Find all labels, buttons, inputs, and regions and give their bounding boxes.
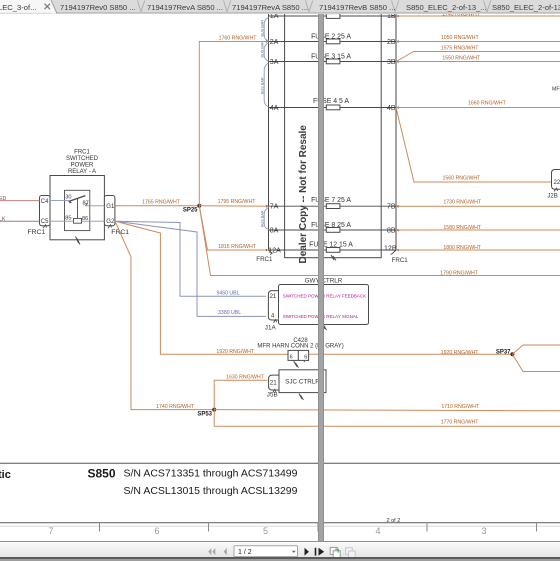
toolbar next-page button [305,548,309,556]
svg-text:3A: 3A [270,59,279,66]
connector C428 housing [288,350,309,360]
svg-text:1575 RNG/WHT: 1575 RNG/WHT [441,45,480,51]
svg-text:6: 6 [154,526,159,536]
svg-text:7A: 7A [270,204,279,211]
pin tick 2B [396,40,399,43]
wire 1550 RNG/WHT 3B to right edge [396,61,560,63]
wire SP37 branch upper [512,345,560,354]
ruler zone numbers [48,526,486,536]
wire fuse row 8 [269,229,397,231]
wire RED into C4 [0,200,40,202]
wire 1790 RNG/WHT SP25 to right edge [199,206,560,276]
svg-text:MFR H: MFR H [552,87,560,93]
svg-text:1710 RNG/WHT: 1710 RNG/WHT [441,404,480,410]
svg-text:FRC1: FRC1 [256,256,273,263]
splice SP25 [197,204,201,208]
fuse F3 15A [326,59,340,64]
svg-text:J2B: J2B [547,193,557,199]
ruler ticks [100,523,537,532]
relay K1 inner box [65,190,90,230]
bus bar bracket 7A-8A [264,208,268,230]
tab S850_ELEC_2-of-13 [484,1,491,12]
svg-text:S/N ACS713351 through ACS71349: S/N ACS713351 through ACS713499 [124,468,298,480]
svg-text:LEC_3-of...: LEC_3-of... [0,3,36,12]
relay contact blade [69,196,86,202]
fuse block bottom squiggle [331,255,336,261]
wire fuse row 4 [269,107,397,109]
svg-text:1790 RNG/WHT: 1790 RNG/WHT [440,270,479,276]
C428 bottom ticks [294,360,304,362]
wire 1800 RNG/WHT 12B to right edge [396,249,560,251]
svg-text:S850_ELEC_2-of-13_...: S850_ELEC_2-of-13_... [492,3,560,12]
svg-text:8B: 8B [387,227,396,234]
svg-text:7194197RevA S850 ...: 7194197RevA S850 ... [232,3,308,12]
bus right end mark [391,250,397,255]
ruler faint line [0,525,560,527]
svg-text:7194197RevB S850 ...: 7194197RevB S850 ... [319,3,395,12]
svg-text:30: 30 [65,194,71,200]
wire BLK into C5 [0,220,40,222]
relay armature link [77,199,79,219]
pin tick 2A [266,40,269,43]
wire 1740 RNG/WHT G2 to SP53 [115,221,214,409]
wire 3380 UBL G2 to J1A pin 4 [115,221,266,316]
svg-text:SP53: SP53 [197,411,212,417]
ruler border line [0,522,560,524]
svg-text:1770 RNG/WHT: 1770 RNG/WHT [441,419,480,425]
pin tick 12B [396,249,399,252]
svg-text:BUS BAR: BUS BAR [261,210,265,227]
connector G1G2 body [104,196,115,226]
pin tick 3B [396,60,399,63]
svg-text:J1A: J1A [265,324,277,331]
svg-text:3380 UBL: 3380 UBL [218,310,241,316]
svg-text:1560 RNG/WHT: 1560 RNG/WHT [443,175,482,181]
svg-text:S/N ACSL13015 through ACSL1329: S/N ACSL13015 through ACSL13299 [124,485,298,497]
tab 7194197RevB [392,1,399,12]
svg-text:8A: 8A [270,227,279,234]
svg-text:BUS BAR: BUS BAR [261,77,265,94]
svg-text:ED: ED [0,196,6,202]
svg-text:LK: LK [0,217,6,223]
svg-text:1815 RNG/WHT: 1815 RNG/WHT [218,244,257,250]
toolbar snapshot icon disabled [346,548,353,555]
wire 1560 RNG/WHT 4B to J2B [396,108,552,183]
svg-text:J5B: J5B [267,392,278,399]
connector C4C5 clocking arrow [43,225,47,229]
svg-text:FRC1: FRC1 [392,257,409,264]
svg-text:2B: 2B [387,39,396,46]
pin tick 12A [266,249,269,252]
relay pin tick 30 [69,201,71,203]
svg-text:1920 RNG/WHT: 1920 RNG/WHT [441,350,480,356]
relay FRC1 title [66,149,99,175]
svg-text:1050 RNG/WHT: 1050 RNG/WHT [441,35,480,41]
connector J2B clocking arrow [554,188,558,191]
svg-text:7B: 7B [387,204,396,211]
svg-text:4A: 4A [270,105,279,112]
connector J1A clocking arrow [274,320,277,323]
connector G1G2 clocking arrow [108,225,112,229]
svg-text:POWER: POWER [71,162,94,168]
toolbar snapshot icon [330,547,337,554]
fuse F12 15A [326,248,340,253]
svg-text:SJC CTRLR: SJC CTRLR [285,379,320,386]
svg-text:1550 RNG/WHT: 1550 RNG/WHT [442,55,481,61]
wire 1580 RNG/WHT 8B to right edge [396,229,560,231]
tab 7194197Rev0 [138,1,145,12]
svg-text:S850: S850 [88,466,116,480]
tab 7194197RevA [224,1,231,12]
svg-text:SP25: SP25 [183,208,198,214]
wire fuse row 3 [269,61,397,63]
svg-text:22: 22 [554,180,560,186]
fuse F4 5A [326,105,340,110]
title block top line [0,462,560,464]
pin tick 7A [266,205,269,208]
svg-text:SWITCHED POWER RELAY FEEDBACK: SWITCHED POWER RELAY FEEDBACK [283,293,366,298]
bus bar right conductor [395,8,397,250]
svg-text:1660 RNG/WHT: 1660 RNG/WHT [468,100,507,106]
svg-text:MFR HARN CONN 2 (LT GRAY): MFR HARN CONN 2 (LT GRAY) [257,344,343,350]
svg-text:FRC1: FRC1 [28,229,46,236]
svg-text:1B: 1B [387,13,396,20]
wire fuse row 1 [269,15,397,17]
svg-text:1630 RNG/WHT: 1630 RNG/WHT [226,374,265,380]
wire 1B row to right edge [396,15,560,17]
svg-text:7: 7 [48,526,53,536]
pin tick 1B [396,15,399,18]
bus bar bracket 2A-3A [264,43,268,61]
fuse F7 25A [326,204,340,209]
connector J5B clocking arrow [273,389,276,392]
wire SP37 branch lower [512,354,560,371]
wire C4 to relay pin 30 [50,200,69,202]
tab close x [45,4,51,10]
wire 9450 UBL G2 to J1A pin 21 [115,221,266,296]
fuse F8 25A [326,228,340,233]
fuse F2 25A [326,39,340,44]
svg-text:1800 RNG/WHT: 1800 RNG/WHT [443,245,482,251]
bus bar bracket 1A-2A [264,18,268,42]
SJC box squiggle [299,394,304,401]
svg-text:tic: tic [0,469,11,481]
connector J1A body [268,291,278,320]
svg-text:Dealer Copy -- Not for Resale: Dealer Copy -- Not for Resale [298,125,309,264]
svg-text:4: 4 [375,526,380,536]
bus bar bracket 3A-4A [264,63,268,107]
svg-text:BUS BAR: BUS BAR [261,41,265,58]
wire 1765 RNG/WHT G1 to SP25 [115,205,199,207]
wire fuse row 7 [269,205,397,207]
svg-text:G2: G2 [106,219,115,225]
svg-text:12A: 12A [268,247,281,254]
active tab ELEC_3-of [0,0,57,14]
pin tick 8B [396,229,399,232]
C428 squiggle [294,362,299,368]
svg-text:1730 RNG/WHT: 1730 RNG/WHT [443,200,482,206]
svg-text:1A: 1A [270,13,279,20]
svg-text:S850_ELEC_2-of-13_...: S850_ELEC_2-of-13_... [406,3,487,12]
svg-text:85: 85 [65,216,71,222]
relay pin tick 87 [85,204,87,206]
wire 1630 RNG/WHT SP53 to J5B [214,380,267,409]
wire fuse row 2 [269,41,397,43]
svg-text:1740 RNG/WHT: 1740 RNG/WHT [156,404,195,410]
relay coil [74,218,82,223]
relay K1 outer box [50,176,104,240]
wire 1660 RNG/WHT 4B to right edge [396,107,560,109]
wire 1920 RNG/WHT G2 to SP37 [115,221,512,354]
svg-text:1 / 2: 1 / 2 [238,549,252,556]
svg-text:7194197Rev0 S850 ...: 7194197Rev0 S850 ... [60,3,136,12]
wire C5 to coil to G2 [50,220,104,222]
tab bar background [0,0,560,14]
toolbar first-page button (disabled) [208,548,215,555]
pin tick 7B [396,205,399,208]
svg-text:21: 21 [270,294,277,300]
SJC CTRLR box [279,370,326,393]
wire 1795 RNG/WHT SP25 to 7A [199,205,268,207]
toolbar last-page button [315,548,317,556]
connector J5B body [269,375,279,390]
svg-text:G1: G1 [106,204,115,210]
fuse F1 [326,14,340,19]
svg-text:6: 6 [304,354,307,360]
wire 1710 RNG/WHT SP53 to right edge [214,410,560,411]
svg-text:SP37: SP37 [496,350,511,356]
svg-text:1760 RNG/WHT: 1760 RNG/WHT [219,36,258,42]
connector C4C5 body [40,196,51,226]
pin tick 4B [396,106,399,109]
relay bottom squiggle [76,237,81,245]
svg-text:RELAY - A: RELAY - A [68,169,96,175]
GWY CTRLR box [279,285,369,325]
svg-text:6: 6 [290,354,293,360]
wire fuse row 12 [269,249,397,251]
wire relay 87 to G1 [85,205,104,207]
svg-text:C5: C5 [41,219,49,225]
splice SP37 [510,352,514,356]
svg-text:4B: 4B [387,105,396,112]
toolbar page input 1/2 [234,546,298,557]
svg-text:FRC1: FRC1 [74,149,90,155]
svg-text:2A: 2A [270,39,279,46]
svg-text:5: 5 [263,526,268,536]
svg-text:SWITCHED: SWITCHED [66,156,99,162]
svg-text:FUSE 12 15 A: FUSE 12 15 A [309,241,353,248]
svg-text:1765 RNG/WHT: 1765 RNG/WHT [142,199,181,205]
svg-text:3B: 3B [387,59,396,66]
svg-text:3: 3 [481,526,486,536]
bus left end mark [269,250,273,255]
svg-text:C4: C4 [41,199,49,205]
wire 1815 RNG/WHT SP25 to 12A [199,206,268,250]
svg-text:9450 UBL: 9450 UBL [216,290,239,296]
svg-text:BUS BAR: BUS BAR [261,20,265,37]
splice SP53 [212,408,216,412]
connector J2B body [552,170,560,190]
svg-text:1580 RNG/WHT: 1580 RNG/WHT [443,225,482,231]
fuse block FRC1 outline [285,8,382,258]
toolbar prev-page button (disabled) [224,548,227,555]
svg-text:7194197RevA S850 ...: 7194197RevA S850 ... [147,3,223,12]
svg-text:21: 21 [270,380,278,387]
tab 7194197RevA 2 [306,1,313,12]
wire 1730 RNG/WHT 7B to right edge [396,205,560,207]
svg-text:1920 RNG/WHT: 1920 RNG/WHT [216,349,255,355]
wire 1770 RNG/WHT SP53 down to right edge [214,410,560,427]
wire 1050 RNG/WHT 2B to right edge [396,41,560,43]
bus bar left conductor [268,8,270,250]
wire 1575 RNG/WHT from 3B [396,52,560,62]
svg-text:1795 RNG/WHT: 1795 RNG/WHT [218,199,257,205]
GWY box squiggle [322,324,327,331]
wire 1760 RNG/WHT SP25 up to 2A [199,42,268,206]
